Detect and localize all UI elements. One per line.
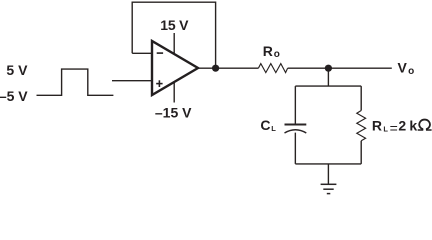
svg-text:5 V: 5 V xyxy=(6,62,28,78)
svg-text:k: k xyxy=(409,118,417,134)
svg-text:V: V xyxy=(398,60,408,76)
svg-text:L: L xyxy=(271,124,276,133)
svg-text:=: = xyxy=(390,120,398,136)
svg-text:15 V: 15 V xyxy=(160,17,189,33)
svg-text:o: o xyxy=(408,66,414,77)
svg-text:–15 V: –15 V xyxy=(155,104,192,120)
svg-text:L: L xyxy=(383,124,388,133)
svg-text:o: o xyxy=(274,49,280,60)
svg-text:R: R xyxy=(372,118,382,134)
svg-text:C: C xyxy=(260,117,270,133)
svg-text:–5 V: –5 V xyxy=(0,88,28,104)
svg-text:R: R xyxy=(263,43,273,59)
svg-text:2: 2 xyxy=(398,118,406,134)
